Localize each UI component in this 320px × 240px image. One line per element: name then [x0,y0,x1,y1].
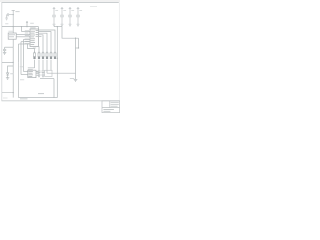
ground under D1 [6,78,9,80]
wire U1 right stub [39,35,42,37]
wire cap ground net segment [54,26,62,28]
decoupling capacitor C4 with power flag and ground [68,8,72,27]
U2 pin text [28,71,33,77]
wire pad R2 down to C7 [38,60,40,71]
label C5 [79,9,82,12]
wire bus v1 down [23,39,25,71]
U1 left pin labels outside [25,30,30,44]
wire power rail [2,26,39,28]
wire regulator to U1 [16,34,30,36]
component X1 box [45,70,52,76]
wire U1 pin to bus v2 [21,41,30,43]
ground under C7 [37,75,40,77]
label C3 [63,9,66,12]
LED D1 [6,73,8,78]
ground under C1 [5,18,8,20]
wire long vertical net [56,27,58,98]
title block text rows [103,102,118,112]
wire down right column [75,38,77,79]
resistor pad R5 [50,52,52,59]
node dot at VCC branch [13,14,14,15]
resistor pad R3 [42,52,44,59]
junction on rail at x21.5 [21,26,22,27]
junction rail x57 [57,26,58,27]
wire U1 bottom to pad R2 [38,46,40,52]
wire jog to LED [8,66,14,73]
label C2 [55,9,58,12]
label U3 text [9,34,15,37]
wire pad R5 down [50,60,52,71]
ground under C6 [3,53,6,55]
wire bus v2 down [20,42,22,75]
IC U2 [28,70,36,77]
wire bus v1 into U2 [24,71,28,73]
wire pad R4 down [46,60,48,74]
wire U1 to pad R1 via step [28,44,35,52]
junction LED net [13,62,14,63]
wire rail to regulator [12,27,14,33]
wire x13 down [12,47,14,97]
U2 right stubs [36,72,38,74]
capacitor C7 [38,71,41,75]
junction on rail at x13 [13,26,14,27]
faint top-right text [90,5,97,8]
title block frame [102,101,120,113]
label below U2 [20,78,24,81]
sheet border top [2,1,119,3]
wire left net y62 [2,61,13,63]
wire rail into U1 [38,27,40,29]
wire regulator to U1 second [16,36,30,38]
label D1 [10,72,13,75]
decoupling capacitor C5 with power flag and ground [76,8,80,27]
label U1 [30,26,35,29]
label net above rail [30,22,34,25]
ground right column [74,79,78,81]
decoupling capacitor C3 with power flag and ground [60,8,64,27]
wire regulator down [12,39,14,47]
U2 right pin text [37,71,40,76]
wire U1 pin to bus v1 [24,38,31,40]
junction x78.5 [78,47,79,48]
sheet border left [1,2,3,100]
wire connect to x75.5 [76,47,79,49]
faint sheet text bottom-left [3,97,8,100]
power symbol VCC top-left [12,10,15,26]
wire bus v3 down [18,44,20,62]
text below box [20,97,28,100]
wire U1 right bus line4 [39,35,43,52]
wire bus v2 into U2 [21,74,28,76]
label in box left [20,65,23,68]
wire rail end drop x62 [62,27,79,39]
capacitor C6 [3,47,6,52]
wire rail drop x21.5 [21,27,23,32]
sheet border bottom [2,100,120,102]
label VCC [15,10,19,13]
wire U1 right bus line3 [39,33,47,52]
capacitor C1 [7,13,9,18]
wire U1 right bus line2 [39,32,51,53]
junction on rail at x27 [26,26,27,27]
wire sub-circuit bottom [19,97,58,99]
sheet top margin band [0,0,120,2]
wire bottom-left to border [2,92,13,94]
wire U1 pin to bus v3 [19,43,31,45]
junction mid x57 [57,58,58,59]
microcontroller U1 [30,29,39,46]
wire pad R1 down [34,60,36,68]
resistor pad R4 [46,52,48,59]
wire bottom horizontal [40,78,54,80]
wire U1 right bus line1 [39,30,55,52]
junction x75.5 on horizontal [75,38,76,39]
resistor pad R2 [38,52,40,59]
ground under C8 [41,75,44,77]
wire to U1 pin row1 [22,31,31,33]
regulator U3 [8,33,16,39]
wire left jog [5,46,14,48]
label under U1 [33,47,36,50]
label above regulator [8,30,13,33]
sheet border right [118,2,120,100]
junction bottom-left [13,92,14,93]
wire drop x78.5 [78,38,80,48]
wire sub-circuit left vertical [18,62,20,97]
wire pad R3 down to C8 [42,60,44,71]
wire bottom drop [53,79,55,98]
resistor pad R6 [54,52,56,59]
label U2 above [28,67,35,69]
text inside box bottom [38,92,44,95]
capacitor C8 [42,71,45,75]
decoupling capacitor C2 with power flag and ground [52,8,56,27]
power flag on rail x27 [26,22,28,27]
resistor pad R1 [33,52,35,59]
label net left above rail [5,22,8,25]
label right ground net [70,77,74,80]
wire X1 to right column [47,72,76,74]
label C4 [71,9,74,12]
wire branch left [9,14,13,16]
U1 pin name text [31,30,39,45]
